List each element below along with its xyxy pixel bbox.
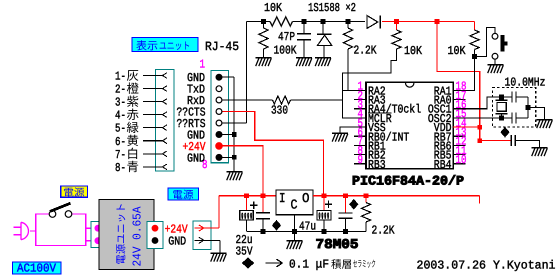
U1 pin 13 stub	[453, 135, 465, 137]
capacitor C3 0.1uF ceramic (input)	[262, 196, 264, 213]
U1 pin 18 stub	[453, 89, 465, 91]
wire button bottom to ground	[494, 59, 496, 64]
svg-text:4-: 4-	[115, 109, 126, 123]
C3 ceramic marker diamond	[272, 220, 281, 231]
J2 pin 4 wire	[143, 114, 163, 116]
capacitor C8 0.1uF ceramic (output)	[345, 196, 347, 213]
svg-text:10: 10	[456, 153, 467, 167]
label AC100V	[13, 262, 62, 274]
U1 pin 10 stub	[453, 163, 465, 165]
ground below button	[487, 65, 503, 74]
resistor R2 100K pulldown	[263, 22, 265, 29]
push button SW2 actuator	[501, 35, 505, 51]
svg-text:2003.07.26 Y.Kyotani: 2003.07.26 Y.Kyotani	[417, 259, 556, 273]
connector J1 RJ-45 body	[211, 70, 229, 162]
U1 pin 8 stub	[354, 154, 366, 156]
wire top conditioning net (RTS node)	[247, 21, 271, 23]
J2 pin 5 wire	[143, 127, 163, 129]
junction C8/bus	[343, 229, 348, 234]
U1 pin 14 stub	[453, 126, 465, 128]
svg-text:2-: 2-	[115, 83, 126, 97]
wire bus to ground	[294, 232, 296, 241]
junction C4/bus	[322, 229, 327, 234]
svg-text:2.2K: 2.2K	[372, 224, 396, 238]
junction bleeder tap (red)	[364, 193, 369, 198]
PS1 label 電源ユニット (vertical)	[116, 204, 125, 263]
wire +24V rail (red)	[219, 195, 276, 197]
label 表示ユニット (display unit)	[132, 38, 198, 52]
RJ-45 pin 4 contact (CTS)	[216, 109, 222, 115]
wire diode cathode to +5V rail (red)	[382, 21, 397, 23]
svg-text:1S1588 ×2: 1S1588 ×2	[308, 1, 356, 15]
U1 pin 7 stub	[354, 144, 366, 146]
U1 pin 17 stub	[453, 99, 465, 101]
wire AC loop (magenta)	[36, 214, 94, 246]
label 電源 (power) yellow	[61, 186, 88, 197]
ground below C7	[531, 148, 547, 157]
connector J4 24V output body	[147, 222, 163, 249]
legend arrow	[266, 262, 283, 264]
U1 MCLR overline	[368, 112, 392, 114]
ground below U2	[286, 241, 302, 250]
wire U2 common to bus	[294, 215, 296, 232]
RJ-45 pin 2 contact (TxD)	[216, 86, 222, 92]
J2 pin 8 arrowhead	[163, 164, 167, 167]
capacitor C7 0.1uF ceramic (VDD decoupling)	[510, 135, 512, 146]
wire VDD to decoupling cap (red)	[480, 140, 512, 142]
U1 pin 5 stub	[354, 126, 366, 128]
connector J2 display-side body	[156, 70, 174, 172]
RJ-45 pin 8 contact (GND)	[216, 155, 222, 161]
svg-text:24V 0.65A: 24V 0.65A	[131, 206, 145, 267]
wire +5V rail (red)	[313, 195, 480, 197]
J2 pin 2 wire	[143, 88, 163, 90]
wire ??RTS to top conditioning net	[222, 122, 247, 124]
capacitor C1 47P	[303, 22, 305, 34]
ground below 100K	[255, 58, 271, 67]
wire RTS riser vertical	[246, 22, 248, 124]
wire oscillator ground rail	[527, 97, 529, 118]
wire 10K to diode node	[293, 21, 366, 23]
wire button loop	[475, 28, 496, 57]
IC U1 PIC16F84A body	[366, 82, 453, 169]
diode D1 1S1588 clamp to ground	[322, 22, 324, 35]
wire oscillator to ground	[528, 108, 545, 120]
svg-text:5-: 5-	[115, 122, 126, 136]
svg-text:2.2K: 2.2K	[354, 44, 378, 58]
wire +5V rail end stub (red)	[479, 196, 481, 204]
J2 pin 2 arrowhead	[163, 86, 167, 89]
wire ??CTS to +5V (red)	[222, 112, 324, 196]
junction R4 pullup tap (red)	[394, 19, 399, 24]
J2 pin 7 wire	[143, 153, 163, 155]
svg-text:1: 1	[200, 57, 206, 71]
wire +5V down feed to VDD (red)	[437, 22, 480, 141]
resistor R1 10K series	[270, 17, 293, 26]
legend text 積層セラミック	[331, 259, 351, 269]
junction oscillator ground	[526, 105, 531, 110]
oscillator module dashed outline	[492, 88, 535, 127]
svg-text:10K: 10K	[264, 1, 283, 15]
wire RJ-45 pin8 GND to bus	[222, 156, 234, 158]
J2 pin 3 wire	[143, 101, 163, 103]
C2 plus sign	[250, 204, 257, 206]
wire C6 to gnd rail	[516, 117, 528, 119]
push button SW2 contact top	[492, 33, 498, 39]
svg-text:8-: 8-	[115, 161, 126, 175]
wire J5 GND to ground	[219, 240, 221, 253]
U1 pin 9 stub	[354, 163, 366, 165]
wire 330 resistor to MCLR riser	[291, 99, 343, 101]
J4 GND contact	[152, 238, 158, 244]
wire R6 bottom to RA1	[453, 50, 474, 91]
resistor R7 2.2K bleeder	[365, 196, 367, 203]
ground below clamp diode	[315, 58, 331, 67]
svg-text:AC100V: AC100V	[17, 262, 57, 276]
U1 notch	[406, 83, 414, 87]
crystal X1 plates and body	[501, 97, 503, 100]
svg-text:9: 9	[358, 153, 364, 167]
svg-text:GND: GND	[187, 151, 205, 165]
connector J3 AC input body	[91, 222, 104, 248]
U1 pin 6 stub	[354, 135, 366, 137]
U1 pin 12 stub	[453, 144, 465, 146]
junction input ceramic tap (red)	[261, 193, 266, 198]
AC plug P1	[14, 222, 36, 239]
svg-text:3-: 3-	[115, 96, 126, 110]
svg-text:47u: 47u	[299, 219, 316, 233]
U1 pin 11 stub	[453, 154, 465, 156]
U1 pin 16 stub	[453, 108, 465, 110]
junction clamp diode tap	[321, 19, 326, 24]
resistor R5 330 (series RxD)	[273, 96, 291, 104]
J2 pin 8 wire	[143, 166, 163, 168]
U1 pin 3 stub	[354, 108, 366, 110]
junction output ceramic tap (red)	[343, 193, 348, 198]
svg-text:10K: 10K	[448, 44, 467, 58]
capacitor C5 (OSC1 load)	[511, 92, 513, 103]
U1 pin 1 stub	[354, 89, 366, 91]
junction 47P tap	[302, 19, 307, 24]
RJ-45 pin 1 contact (GND)	[216, 74, 222, 80]
junction VDD (red)	[478, 125, 483, 130]
svg-text:47P: 47P	[278, 30, 295, 44]
J5 +24V pin arrow (red)	[195, 227, 220, 229]
junction VDD decoupling (red)	[478, 138, 483, 143]
C8 ceramic marker diamond	[349, 199, 358, 210]
wire crystal top node to C5	[502, 96, 513, 98]
RJ-45 pin 3 contact (RxD)	[216, 97, 222, 103]
junction 2.2K tap	[346, 19, 351, 24]
J4 +24V contact	[152, 225, 158, 231]
svg-text:10.0MHz: 10.0MHz	[505, 76, 546, 90]
junction 22u tap (red)	[244, 193, 249, 198]
junction bus/pin8	[232, 155, 237, 160]
junction crystal bottom	[499, 116, 504, 121]
regulator U2 78M05 body	[276, 190, 313, 215]
junction 47u tap (red)	[322, 193, 327, 198]
svg-text:GND: GND	[168, 235, 186, 249]
svg-text:1-: 1-	[115, 70, 126, 84]
svg-text:330: 330	[271, 104, 288, 118]
switch SW1 contacts	[49, 211, 56, 218]
svg-text:78M05: 78M05	[316, 238, 359, 253]
wire VDD pin to +5V feed (red)	[453, 126, 480, 128]
junction C3/bus	[261, 229, 266, 234]
wire RJ-45 pin6 GND to bus	[222, 134, 234, 136]
J2 pin 5 arrowhead	[163, 125, 167, 128]
RJ-45 pin 5 contact (RTS)	[216, 120, 222, 126]
svg-text:0.1 μF: 0.1 μF	[289, 258, 329, 272]
J2 pin 1 arrowhead	[163, 73, 167, 76]
junction +5V feed (red)	[435, 19, 440, 24]
wire +24V feed riser (red)	[218, 196, 220, 228]
svg-text:10K: 10K	[404, 44, 423, 58]
wire RxD net (RJ-45 pin3 to 330 resistor)	[222, 99, 273, 101]
capacitor C6 (OSC2 load)	[511, 113, 513, 124]
wire crystal bottom node to C6	[502, 117, 513, 119]
svg-text:100K: 100K	[274, 44, 298, 58]
wire RA2 row from 2.2K	[342, 89, 366, 91]
wire C7 to ground	[515, 141, 539, 148]
svg-text:35V: 35V	[236, 245, 254, 259]
junction 100K tap	[261, 19, 266, 24]
capacitor C4 47u electrolytic	[323, 196, 325, 211]
C7 ceramic marker diamond	[500, 127, 509, 138]
svg-text:RB4: RB4	[434, 158, 452, 172]
ground at VSS	[332, 133, 348, 142]
RJ-45 pin 6 contact (GND)	[216, 132, 222, 138]
C4 plus sign	[325, 203, 332, 205]
capacitor C2 22u/35V electrolytic	[246, 196, 248, 211]
U1 pin 4 stub	[354, 117, 366, 119]
J2 pin 6 arrowhead	[163, 138, 167, 141]
legend ceramic marker diamond	[242, 257, 254, 268]
ground bus below regulator	[247, 231, 366, 233]
svg-text:I: I	[279, 192, 286, 207]
connector J5 24V feed body	[193, 221, 211, 250]
wire VSS to ground	[340, 127, 366, 133]
ground below RJ-45 bus	[226, 172, 242, 181]
wire R4 to MCLR (jogs left)	[342, 49, 396, 118]
wire OSC1 to crystal	[453, 97, 501, 109]
svg-text:O: O	[302, 192, 310, 207]
J2 pin 6 wire	[143, 140, 163, 142]
junction bus/pin6	[232, 132, 237, 137]
resistor R3 2.2K series to RA2	[347, 22, 349, 29]
J2 pin 1 wire	[143, 75, 163, 77]
U1 pin 15 stub	[453, 117, 465, 119]
svg-text:RJ-45: RJ-45	[205, 40, 239, 54]
svg-text:6-: 6-	[115, 135, 126, 149]
wire OSC2 to crystal	[453, 117, 501, 119]
wire C5 to gnd rail	[516, 96, 528, 98]
ground below 47P	[296, 58, 312, 67]
resistor R6 10K pullup (RA1 button)	[470, 30, 479, 50]
junction button tap	[472, 54, 477, 59]
label 電源 (power) cyan	[168, 188, 198, 200]
diode D2 1S1588 clamp to +5V	[367, 16, 378, 29]
wire +24V from RJ-45 pin7 (red)	[222, 146, 263, 196]
J5 GND pin arrow	[195, 239, 221, 241]
power supply unit PS1 body	[99, 200, 154, 270]
wire GND bus vertical from RJ-45 pins 1/6/8	[233, 77, 235, 172]
svg-text:7-: 7-	[115, 148, 126, 162]
wire +5V to R6 (red)	[474, 22, 476, 31]
ground below oscillator	[536, 120, 552, 129]
J2 pin 3 arrowhead	[163, 99, 167, 102]
RJ-45 pin 7 contact (+24V)	[216, 143, 222, 149]
wire RJ-45 pin1 GND to bus	[222, 76, 234, 78]
switch SW1 lever	[50, 203, 71, 211]
svg-text:C: C	[291, 199, 298, 214]
push button SW2 contact bottom	[492, 53, 498, 59]
junction common/bus	[292, 229, 297, 234]
resistor R4 10K pullup to RA2/MCLR net	[396, 22, 398, 31]
svg-text:PIC16F84A-20/P: PIC16F84A-20/P	[352, 174, 464, 189]
J3 pin 1 contact	[95, 225, 101, 231]
J3 pin 2 contact	[95, 238, 101, 244]
U1 pin 2 stub	[354, 99, 366, 101]
ground below J5	[210, 253, 226, 262]
J2 pin 7 arrowhead	[163, 151, 167, 154]
svg-text:RB3: RB3	[368, 158, 386, 172]
junction crystal top	[499, 95, 504, 100]
J2 pin 4 arrowhead	[163, 112, 167, 115]
